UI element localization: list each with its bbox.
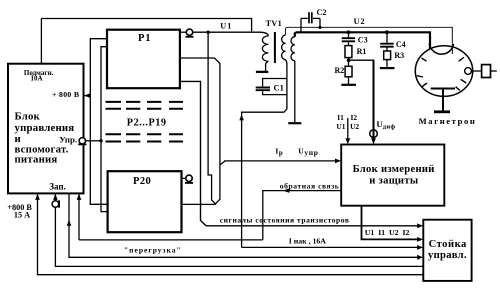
svg-text:C1: C1 — [274, 82, 284, 92]
svg-text:Блок измерений: Блок измерений — [353, 164, 435, 175]
dashed rows P2...P19 — [106, 102, 184, 142]
junction dot C4 on heater bus — [385, 30, 389, 34]
wire secondary B bottom to bar — [294, 61, 296, 123]
wire Ip / Uupr to measuring block — [220, 161, 337, 165]
svg-text:Блок: Блок — [15, 111, 41, 123]
module P1 — [107, 30, 180, 88]
svg-text:U1: U1 — [336, 122, 345, 131]
wire Udif from R1-R2 node — [349, 59, 374, 61]
resistor R3 — [384, 51, 391, 60]
terminal circle and bus4 — [55, 193, 423, 266]
capacitor C4 — [386, 32, 388, 43]
svg-text:"перегрузка": "перегрузка" — [124, 245, 182, 254]
svg-text:+ 800 В: + 800 В — [52, 90, 79, 99]
svg-text:сигналы состояния транзисторов: сигналы состояния транзисторов — [220, 216, 350, 225]
rack box (Стойка управл.) — [423, 220, 471, 281]
magnetron probe circle — [465, 68, 472, 75]
svg-text:10А: 10А — [31, 75, 43, 83]
wire sense line from node U1 down to Ip wire — [208, 32, 216, 204]
svg-text:и защиты: и защиты — [369, 176, 418, 187]
svg-text:U1: U1 — [220, 21, 232, 30]
svg-text:управл.: управл. — [428, 250, 467, 261]
text labels — [15, 111, 75, 166]
wire from P1 terminal to TV1 primary — [193, 32, 269, 36]
capacitor C3 — [348, 32, 350, 37]
svg-text:P20: P20 — [133, 176, 151, 187]
ground bar R3 — [380, 67, 395, 69]
I nak bus to rack — [242, 246, 419, 248]
resistor R2 — [345, 66, 352, 77]
bus3 wire with up arrow — [69, 193, 419, 257]
arrow up on I nak vertical — [239, 114, 244, 120]
svg-text:C2: C2 — [317, 8, 327, 17]
svg-text:C4: C4 — [396, 40, 406, 49]
wire secondary A bottom to C1 loop — [285, 60, 287, 79]
transformer TV1 secondary winding A — [282, 35, 286, 59]
wire +800V rail (P1 left to P20 left) — [90, 39, 107, 205]
wire +800V stub into control block — [84, 95, 91, 97]
overload bus and feedback wire (обратная связь) — [79, 191, 341, 240]
arrow on +800V stub — [84, 93, 90, 98]
magnetron cathode heater arc — [429, 44, 453, 55]
wire thin heater line to magnetron — [285, 27, 452, 54]
svg-text:U2: U2 — [350, 122, 359, 131]
signals bus (сигналы состояния транзисторов) — [206, 225, 419, 227]
transformer core — [274, 32, 276, 63]
wire probe to load — [471, 70, 481, 72]
svg-text:Упр.: Упр. — [59, 135, 77, 145]
svg-text:Стойка: Стойка — [429, 239, 467, 250]
load square — [482, 65, 491, 78]
overload wire vertical — [78, 193, 80, 240]
transformer TV1 primary winding — [262, 36, 268, 62]
svg-text:P1: P1 — [138, 33, 151, 44]
control block (Блок управления и вспомогат. питания) — [8, 64, 84, 194]
termination bar secondary B — [288, 122, 301, 124]
module P20 — [108, 171, 182, 232]
svg-text:питания: питания — [15, 153, 58, 165]
svg-text:R2: R2 — [335, 66, 345, 75]
terminal circle at P1 top right — [180, 31, 186, 33]
svg-text:U1 I1 U2 I2: U1 I1 U2 I2 — [365, 228, 410, 237]
resistor R1 — [345, 46, 352, 58]
wire +800V 15A — [38, 193, 424, 274]
capacitor C1 assembly below primary — [266, 61, 269, 71]
labels above measuring block — [275, 113, 395, 157]
transformer TV1 secondary winding B — [291, 37, 295, 61]
U1I1U2I2 wire from measuring block to rack — [362, 206, 419, 240]
svg-text:управления: управления — [15, 122, 75, 134]
wire Upr rail (P1 left to P20 left) — [101, 47, 108, 212]
wire U1 top bus — [41, 19, 251, 33]
terminal circle at P20 top right — [182, 177, 186, 179]
wire thick heater bus to magnetron — [295, 32, 430, 49]
capacitor C2 — [301, 17, 320, 19]
svg-text:P2...P19: P2...P19 — [127, 117, 167, 128]
svg-text:I2: I2 — [351, 113, 358, 122]
svg-text:обратная связь: обратная связь — [280, 181, 340, 190]
junction dot C3 on heater bus — [347, 30, 351, 34]
magnetron body — [415, 46, 472, 97]
magnetron output stub — [431, 88, 455, 90]
wire from P1 right (y81) down to signals bus — [180, 81, 206, 225]
svg-text:Магнетрон: Магнетрон — [419, 116, 477, 126]
terminal circle Udif — [370, 130, 378, 138]
arrow into measuring block — [335, 159, 341, 164]
wire from P1 right down and to P20 right — [180, 58, 220, 204]
svg-text:15 А: 15 А — [14, 211, 30, 220]
magnetron anode ticks — [417, 57, 466, 90]
svg-text:U2: U2 — [354, 17, 366, 26]
svg-text:R3: R3 — [394, 51, 404, 60]
svg-text:R1: R1 — [357, 47, 367, 56]
measuring block (Блок измерений и защиты) — [341, 145, 444, 206]
svg-text:Зап.: Зап. — [49, 181, 66, 191]
ground bar R2 — [341, 84, 356, 86]
wire heater current path down to I nak bus — [242, 95, 287, 248]
wire Подмагн. from block top up — [40, 19, 42, 64]
terminal Упр. circle on control block — [79, 138, 85, 144]
wire Упр. to rail — [86, 140, 102, 142]
svg-text:C3: C3 — [358, 35, 368, 44]
svg-text:I нак , 16А: I нак , 16А — [289, 236, 327, 245]
I1/I2 separator line with arrow into measuring block — [347, 118, 349, 139]
svg-text:TV1: TV1 — [266, 19, 282, 28]
svg-text:I1: I1 — [337, 113, 344, 122]
